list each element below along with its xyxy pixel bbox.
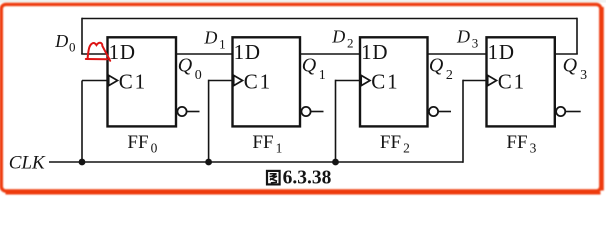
wire: clock riser FF1 <box>208 80 210 162</box>
svg-text:D: D <box>203 28 217 48</box>
flip-flop FF2 box <box>360 37 428 126</box>
svg-text:Q: Q <box>563 54 578 76</box>
label Q3 <box>563 54 588 82</box>
label Q1 <box>302 54 326 82</box>
wire: clock riser FF0 <box>81 81 83 163</box>
svg-text:0: 0 <box>195 68 202 83</box>
svg-text:3: 3 <box>530 140 537 155</box>
svg-text:FF: FF <box>380 132 401 153</box>
svg-text:FF: FF <box>127 132 148 153</box>
label D1 <box>203 28 225 52</box>
label D2 <box>331 27 353 51</box>
FF1 clock triangle <box>234 75 243 85</box>
FF2 inverted output stub <box>438 111 451 113</box>
wire: feedback top horizontal from Q3 to D0 <box>82 18 577 20</box>
svg-text:2: 2 <box>347 35 354 50</box>
wire: clock riser FF2 <box>335 80 337 162</box>
FF3 inverted output bubble <box>556 107 565 116</box>
svg-text:1: 1 <box>276 140 283 155</box>
flip-flop FF0 box <box>108 37 177 126</box>
svg-text:1D: 1D <box>234 40 261 64</box>
svg-text:0: 0 <box>69 40 76 55</box>
wire: C1 input FF3 <box>463 80 487 82</box>
FF3 inverted output stub <box>565 111 580 113</box>
wire: C1 input FF0 <box>82 80 108 82</box>
svg-text:Q: Q <box>178 54 193 76</box>
svg-text:FF: FF <box>252 132 273 153</box>
junction dot at FF0 riser <box>79 159 86 166</box>
svg-text:Q: Q <box>429 54 444 76</box>
wire: Q1 to D2 <box>300 53 360 55</box>
label Q2 <box>429 54 453 82</box>
label Q0 <box>178 54 202 82</box>
svg-text:1: 1 <box>219 37 226 52</box>
svg-text:CLK: CLK <box>9 152 46 173</box>
wire: D0 input horizontal into FF0 <box>81 53 107 55</box>
wire: C1 input FF1 <box>209 80 233 82</box>
svg-text:D: D <box>331 27 345 47</box>
caption 图6.3.38 <box>267 167 332 188</box>
junction dot at FF1 riser <box>205 159 212 166</box>
wire: Q2 to D3 <box>428 53 487 55</box>
svg-text:Q: Q <box>302 54 317 76</box>
svg-text:C1: C1 <box>498 69 526 93</box>
FF0 inverted output bubble <box>177 107 186 116</box>
svg-text:1D: 1D <box>361 40 388 64</box>
FF2 inverted output bubble <box>429 107 438 116</box>
wire: feedback left vertical down to D0 <box>81 18 83 54</box>
svg-text:1: 1 <box>319 68 326 83</box>
svg-text:0: 0 <box>151 140 158 155</box>
svg-text:FF: FF <box>506 132 527 153</box>
FF3 clock triangle <box>488 75 497 85</box>
junction dot at FF2 riser <box>332 159 339 166</box>
red frame border <box>1 4 602 193</box>
FF0 inverted output stub <box>187 111 200 113</box>
wire: CLK bus <box>49 161 463 163</box>
svg-text:C1: C1 <box>119 69 147 93</box>
svg-text:1D: 1D <box>109 40 136 64</box>
wire: clock riser FF3 <box>462 80 464 163</box>
svg-text:3: 3 <box>580 68 587 83</box>
wire: feedback right vertical from Q3 up <box>576 18 578 54</box>
svg-text:C1: C1 <box>244 69 272 93</box>
red annotation squiggle at D0 input <box>86 43 110 61</box>
wire: Q3 output horizontal <box>554 53 577 55</box>
svg-text:3: 3 <box>472 35 479 50</box>
FF2 clock triangle <box>361 75 370 85</box>
label D3 <box>456 27 478 51</box>
CJK glyph TU (figure) drawn as strokes <box>267 171 280 185</box>
FF0 clock triangle <box>109 75 118 85</box>
svg-text:2: 2 <box>446 68 453 83</box>
label D0 <box>54 31 75 55</box>
flip-flop FF3 box <box>487 37 555 126</box>
svg-text:D: D <box>54 31 68 51</box>
svg-text:1D: 1D <box>488 40 515 64</box>
flip-flop FF1 box <box>233 37 301 126</box>
wire: Q0 to D1 <box>176 53 233 55</box>
svg-text:6.3.38: 6.3.38 <box>283 167 332 188</box>
svg-text:C1: C1 <box>371 69 399 93</box>
FF1 inverted output stub <box>311 111 324 113</box>
svg-text:D: D <box>456 27 470 47</box>
svg-text:2: 2 <box>403 140 410 155</box>
FF1 inverted output bubble <box>301 107 310 116</box>
wire: C1 input FF2 <box>336 80 361 82</box>
